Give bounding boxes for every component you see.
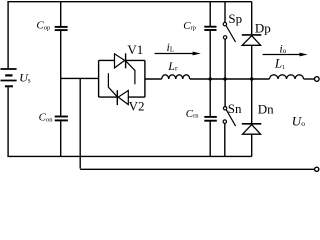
svg-text:Dp: Dp (255, 21, 271, 36)
svg-text:iL: iL (167, 40, 175, 54)
svg-text:Uo: Uo (292, 113, 305, 128)
svg-text:V2: V2 (129, 99, 145, 114)
svg-text:Lr: Lr (167, 59, 178, 73)
svg-text:Dn: Dn (258, 102, 274, 117)
svg-text:Crp: Crp (183, 20, 196, 32)
svg-text:Crn: Crn (186, 108, 200, 120)
svg-text:io: io (279, 41, 286, 55)
svg-text:Sp: Sp (228, 11, 242, 26)
svg-text:Us: Us (19, 70, 31, 84)
svg-text:L1: L1 (274, 56, 285, 71)
svg-text:Sn: Sn (228, 101, 242, 116)
svg-text:Con: Con (39, 112, 54, 124)
svg-text:V1: V1 (127, 42, 143, 57)
svg-text:Cop: Cop (36, 20, 50, 32)
